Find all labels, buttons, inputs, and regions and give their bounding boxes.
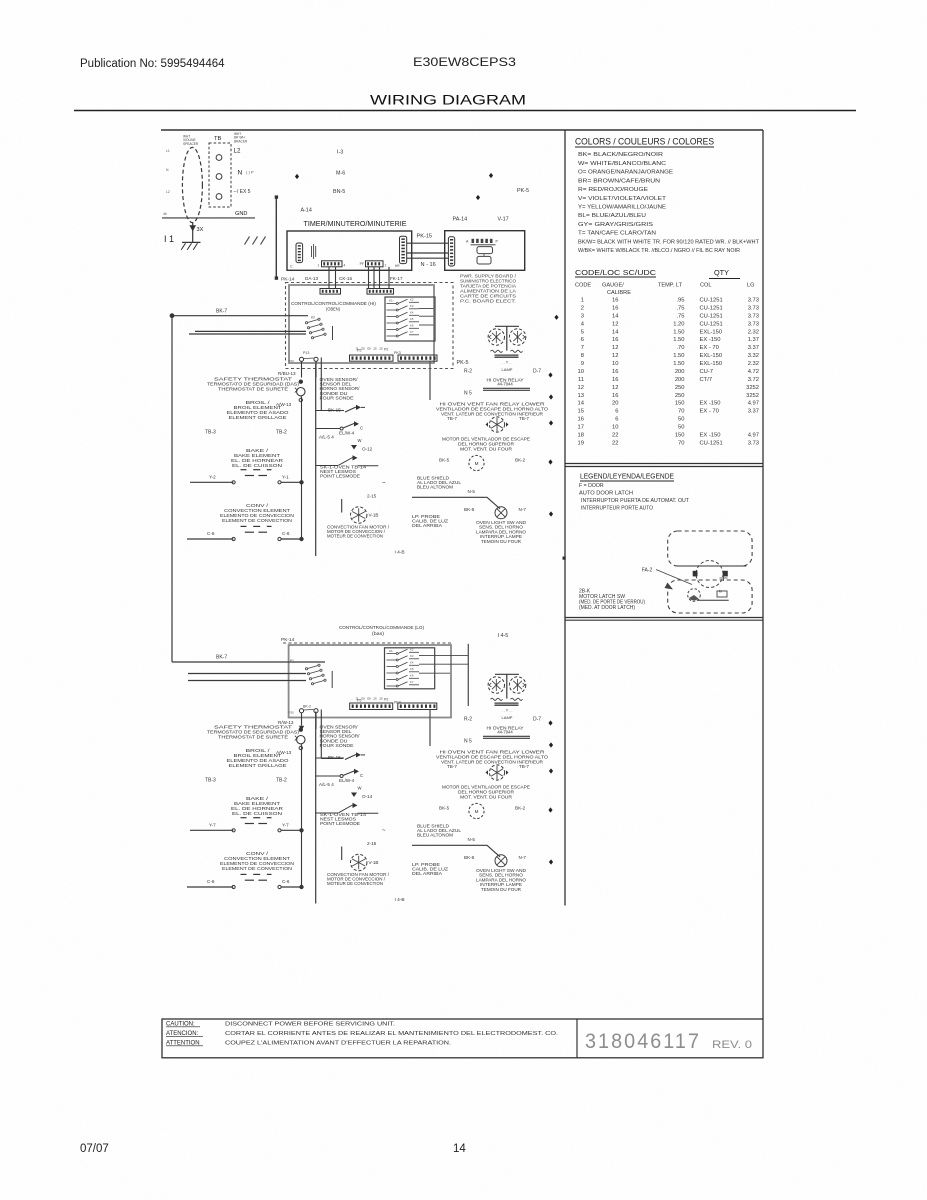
right panel right border [762, 130, 764, 1019]
svg-text:16: 16 [612, 393, 618, 399]
sensor switch 2 [316, 775, 340, 777]
svg-text:11: 11 [578, 377, 584, 383]
svg-text:I 4-5: I 4-5 [498, 633, 509, 639]
svg-text:1: 1 [318, 263, 320, 267]
svg-text:CU-1251: CU-1251 [700, 305, 723, 311]
legend cam follower blocks [693, 571, 698, 577]
svg-text:P20: P20 [289, 711, 295, 715]
thermostat symbol [299, 380, 302, 383]
svg-text:12: 12 [612, 321, 618, 327]
svg-text:V-17: V-17 [498, 217, 509, 223]
timer crystal marks [311, 246, 313, 257]
legend bottom double rule [565, 617, 763, 619]
timer left connector [296, 243, 303, 263]
diagram frame top border [161, 129, 763, 131]
oven lamp left [488, 329, 504, 345]
svg-text:16: 16 [578, 417, 584, 423]
svg-text:2-15: 2-15 [367, 494, 377, 499]
svg-text:K2: K2 [410, 648, 414, 652]
svg-text:INTERRUPTEUR PORTE AUTO: INTERRUPTEUR PORTE AUTO [581, 506, 653, 512]
svg-text:N-5: N-5 [468, 837, 476, 842]
svg-text:M: M [719, 590, 722, 594]
svg-text:CU-7: CU-7 [700, 369, 714, 375]
svg-text:.70: .70 [676, 345, 684, 351]
svg-text:BK-8: BK-8 [464, 855, 475, 860]
svg-text:PK-5: PK-5 [517, 188, 529, 194]
lower control bottom strip C [350, 703, 393, 710]
svg-text:50: 50 [678, 417, 684, 423]
svg-text:K6: K6 [410, 674, 414, 678]
svg-text:GAUGE/: GAUGE/ [602, 283, 624, 289]
upper relay box exit wires [419, 308, 434, 310]
upper control connector strip A [320, 289, 341, 295]
terminal block dashed box [209, 143, 231, 207]
svg-text:V-1B: V-1B [369, 513, 379, 518]
svg-text:O= ORANGE/NARANJA/ORANGE: O= ORANGE/NARANJA/ORANGE [578, 170, 673, 176]
svg-text:BK= BLACK/NEGRO/NOIR: BK= BLACK/NEGRO/NOIR [578, 152, 663, 158]
terminal block screws [216, 155, 222, 161]
svg-text:~: ~ [382, 828, 386, 834]
svg-text:12: 12 [612, 385, 618, 391]
wire P13 right drop [315, 361, 317, 377]
svg-text:TEMP. LT: TEMP. LT [658, 283, 683, 289]
svg-text:TIMER/MINUTERO/MINUTERIE: TIMER/MINUTERO/MINUTERIE [304, 221, 407, 228]
svg-text:K7: K7 [410, 330, 414, 334]
svg-text:13: 13 [578, 393, 584, 399]
svg-text:6: 6 [615, 417, 618, 423]
svg-text:EX -150: EX -150 [700, 337, 721, 343]
lamp filaments [491, 350, 503, 352]
svg-text:20: 20 [612, 401, 618, 407]
svg-text:318046117: 318046117 [585, 1030, 701, 1053]
wire lower strip D drop [429, 710, 431, 747]
svg-text:4: 4 [344, 263, 346, 267]
svg-text:44-7044: 44-7044 [497, 382, 513, 387]
wire into lower control 2 double [188, 673, 306, 675]
svg-text:N 5: N 5 [464, 391, 472, 397]
svg-text:3.37: 3.37 [748, 409, 759, 415]
svg-text:( ) P: ( ) P [246, 170, 254, 175]
caution box divider [576, 1019, 578, 1058]
wires timer to control strip B [368, 267, 370, 289]
svg-text:LG: LG [747, 283, 754, 289]
sensor feed bus [315, 364, 317, 556]
svg-text:18: 18 [578, 432, 584, 438]
cooling motor symbol [469, 455, 484, 470]
svg-text:R-2: R-2 [464, 368, 472, 374]
svg-text:.75: .75 [676, 313, 684, 319]
svg-text:M: M [475, 461, 479, 466]
svg-text:EL/W-4: EL/W-4 [339, 431, 355, 436]
svg-text:14: 14 [612, 313, 619, 319]
svg-text:PF: PF [360, 262, 364, 266]
svg-text:MOT. VENT. DU FOUR: MOT. VENT. DU FOUR [460, 794, 512, 799]
lower relay box K-bank [385, 648, 435, 689]
legend contact bar [698, 599, 729, 601]
legend motor start switch circle [688, 589, 701, 602]
svg-text:(OBEN): (OBEN) [326, 307, 340, 312]
svg-text:ELEMENT DE CONVECTION: ELEMENT DE CONVECTION [222, 866, 292, 871]
svg-text:E30EW8CEPS3: E30EW8CEPS3 [413, 57, 516, 69]
svg-text:FA-2: FA-2 [642, 568, 653, 574]
svg-text:CALIBRE: CALIBRE [607, 290, 631, 296]
wire lower P13 right drop [315, 713, 317, 729]
lamp base double line [495, 354, 519, 356]
svg-text:POINT LESMODE: POINT LESMODE [320, 821, 360, 826]
svg-text:BK-5: BK-5 [439, 805, 450, 810]
svg-text:12: 12 [612, 345, 618, 351]
svg-text:C-6: C-6 [282, 879, 290, 884]
svg-text:Y-7: Y-7 [209, 823, 216, 828]
svg-text:PA-14: PA-14 [453, 217, 468, 223]
svg-text:O-12: O-12 [362, 447, 373, 452]
svg-text:FOUR SONDE: FOUR SONDE [320, 395, 354, 400]
svg-text:N 5: N 5 [464, 739, 472, 745]
svg-text:COL: COL [700, 283, 712, 289]
svg-text:CONTROL/CONTROL/COMMANDE (LO): CONTROL/CONTROL/COMMANDE (LO) [339, 625, 424, 630]
svg-text:R= RED/ROJO/ROUGE: R= RED/ROJO/ROUGE [578, 187, 648, 193]
svg-text:MOTEUR DE CONVECTION: MOTEUR DE CONVECTION [327, 534, 383, 539]
svg-text:BK-2: BK-2 [515, 805, 526, 810]
svg-text:D-7: D-7 [533, 716, 541, 722]
lower control dashed top [283, 642, 453, 644]
svg-text:10: 10 [578, 369, 584, 375]
svg-text:BK-7: BK-7 [216, 655, 227, 661]
svg-text:W: W [358, 438, 362, 443]
svg-text:WIRING DIAGRAM: WIRING DIAGRAM [370, 93, 526, 108]
lamp base double line [495, 702, 519, 704]
svg-text:150: 150 [675, 401, 685, 407]
svg-text:8: 8 [581, 353, 584, 359]
svg-text:Y-1: Y-1 [282, 475, 289, 480]
svg-text:CK-15: CK-15 [339, 276, 352, 281]
lower control bottom strip D [398, 703, 437, 710]
power cord oval [182, 147, 202, 222]
svg-text:D-7: D-7 [533, 368, 541, 374]
junction diamonds column [548, 720, 552, 725]
svg-text:BK-5: BK-5 [439, 457, 450, 462]
svg-text:BLEU ALTONOM: BLEU ALTONOM [417, 484, 454, 489]
svg-text:3252: 3252 [746, 385, 759, 391]
svg-text:K7: K7 [410, 680, 414, 684]
svg-text:. 1 5 5 2 2 .: . 1 5 5 2 2 . [351, 347, 387, 351]
svg-text:Y-7: Y-7 [282, 823, 289, 828]
svg-text:9: 9 [581, 361, 584, 367]
svg-text:W: W [358, 786, 362, 791]
svg-text:I-3: I-3 [337, 150, 343, 156]
svg-text:N-5: N-5 [468, 489, 476, 494]
svg-text:4b: 4b [163, 212, 167, 216]
svg-text:16: 16 [612, 305, 618, 311]
lamp caption underline [483, 735, 530, 737]
upper relay box K-bank [385, 297, 435, 341]
svg-text:4.97: 4.97 [748, 432, 759, 438]
svg-text:BK/W= BLACK WITH WHITE TR. FOR: BK/W= BLACK WITH WHITE TR. FOR 90/120 RA… [578, 239, 760, 245]
oven lamp pair T feed [495, 673, 519, 675]
svg-text:EX -150: EX -150 [700, 432, 721, 438]
svg-text:EL. DE CUISSON: EL. DE CUISSON [232, 463, 282, 468]
svg-text:4.72: 4.72 [748, 369, 759, 375]
wire strip D drop [429, 361, 431, 400]
svg-text:K1-: K1- [389, 649, 394, 653]
upper control bottom strip D [398, 355, 437, 361]
oven light lamp [495, 507, 507, 519]
sensor switch 2 [316, 428, 340, 430]
svg-text:N-7: N-7 [519, 507, 527, 512]
svg-text:TEMOIN DU FOUR: TEMOIN DU FOUR [481, 539, 521, 544]
timer right connector [400, 236, 407, 263]
svg-text:14: 14 [578, 401, 585, 407]
svg-text:16: 16 [612, 337, 618, 343]
power board relay K2 [477, 256, 491, 264]
junction diamonds column [554, 315, 558, 320]
svg-text:BLEU ALTONOM: BLEU ALTONOM [417, 832, 454, 837]
svg-text:BK-2: BK-2 [515, 457, 526, 462]
svg-text:PK-15: PK-15 [417, 234, 433, 240]
svg-text:3: 3 [581, 313, 584, 319]
svg-text:COLORS / COULEURS / COLORES: COLORS / COULEURS / COLORES [575, 137, 714, 147]
svg-text:12: 12 [612, 353, 618, 359]
svg-text:250: 250 [675, 385, 685, 391]
svg-text:BK-7: BK-7 [216, 309, 227, 315]
oven lamp right [509, 329, 525, 345]
convection fan feed stub [341, 847, 343, 861]
svg-text:3X: 3X [197, 227, 204, 233]
svg-text:2.32: 2.32 [748, 329, 759, 335]
svg-text:REV. 0: REV. 0 [712, 1039, 752, 1051]
wire into upper control 2 double [195, 330, 306, 332]
svg-text:QTY: QTY [714, 270, 729, 277]
svg-text:R-2: R-2 [464, 716, 472, 722]
svg-text:K5: K5 [410, 317, 414, 321]
element feed line [301, 396, 303, 539]
svg-text:3.73: 3.73 [748, 298, 759, 304]
light switch wire [412, 845, 500, 857]
svg-text:TB-7: TB-7 [519, 764, 529, 769]
svg-text:THERMOSTAT DE SURETE: THERMOSTAT DE SURETE [218, 735, 288, 740]
element symbol dashes 1 [241, 469, 247, 471]
svg-text:LEGEND/LEYENDA/LEGENDE: LEGEND/LEYENDA/LEGENDE [580, 472, 674, 481]
svg-text:3252: 3252 [746, 393, 759, 399]
svg-text:70: 70 [678, 409, 684, 415]
svg-text:K4: K4 [410, 311, 414, 315]
svg-text:EX - 70: EX - 70 [700, 345, 719, 351]
wire bundle timer to power board [407, 242, 449, 244]
element feed line [301, 744, 303, 887]
timer box U1 [287, 231, 412, 270]
upper control board U3 [289, 285, 434, 363]
svg-text:6: 6 [615, 409, 618, 415]
svg-text:(bas): (bas) [372, 631, 385, 636]
element symbol dashes 2 [241, 873, 247, 875]
svg-text:O-14: O-14 [362, 794, 373, 799]
oven light lamp [495, 855, 507, 867]
svg-text:PK-5: PK-5 [457, 360, 469, 366]
svg-text:CU-1251: CU-1251 [700, 440, 723, 446]
svg-text:L1: L1 [166, 149, 170, 153]
svg-text:W= WHITE/BLANCO/BLANC: W= WHITE/BLANCO/BLANC [578, 161, 666, 167]
svg-text:V-1B: V-1B [369, 860, 379, 865]
svg-text:2.32: 2.32 [748, 361, 759, 367]
sensor switch 3 [316, 812, 338, 814]
timer connector P1 strip [322, 261, 343, 267]
svg-text:PK-14: PK-14 [281, 637, 295, 643]
svg-text:DA-13: DA-13 [305, 276, 318, 281]
svg-text:TB: TB [214, 136, 222, 142]
lamp filaments [491, 698, 503, 700]
svg-text:I 4-B: I 4-B [395, 550, 405, 556]
svg-text:1.37: 1.37 [748, 337, 759, 343]
svg-text:EXL-150: EXL-150 [700, 361, 723, 367]
thermostat arrow lower [299, 726, 304, 731]
svg-text:~: ~ [382, 481, 386, 487]
svg-text:A-14: A-14 [301, 208, 312, 214]
svg-text:22: 22 [612, 440, 618, 446]
svg-text:K3: K3 [410, 654, 414, 658]
svg-text:CONTROL/CONTROL/COMMANDE (HI): CONTROL/CONTROL/COMMANDE (HI) [291, 301, 376, 306]
svg-text:1.50: 1.50 [673, 353, 684, 359]
lower relay box exit wires [419, 654, 468, 656]
legend latch drawing upper dashed housing [668, 531, 752, 566]
svg-text:N - 16: N - 16 [421, 262, 436, 268]
svg-text:Y= YELLOW/AMARILLO/JAUNE: Y= YELLOW/AMARILLO/JAUNE [578, 205, 666, 211]
svg-text:MOT. VENT. DU FOUR: MOT. VENT. DU FOUR [460, 446, 512, 451]
svg-text:12: 12 [578, 385, 584, 391]
svg-text:3.37: 3.37 [748, 345, 759, 351]
svg-text:A/L-5 4: A/L-5 4 [319, 782, 334, 787]
svg-text:R/BU-13: R/BU-13 [278, 371, 296, 376]
svg-text:BK-8: BK-8 [464, 507, 475, 512]
svg-text:W/BK= WHITE W/BLACK TR. //BLCO: W/BK= WHITE W/BLACK TR. //BLCO./ NGRO //… [578, 248, 740, 254]
svg-text:1: 1 [385, 263, 387, 267]
svg-text:T= TAN/CAFE CLARO/TAN: T= TAN/CAFE CLARO/TAN [578, 231, 656, 237]
svg-text:I 4-B: I 4-B [395, 897, 405, 903]
svg-text:3.73: 3.73 [748, 440, 759, 446]
svg-text:CU-1251: CU-1251 [700, 313, 723, 319]
svg-text:C: C [360, 773, 363, 778]
wire lower P13 left drop [301, 713, 303, 726]
wire P13 left drop [301, 361, 303, 377]
svg-text:TB-2: TB-2 [276, 778, 287, 784]
svg-text:200: 200 [675, 369, 685, 375]
svg-text:EL/W-4: EL/W-4 [339, 778, 355, 783]
svg-text:4.97: 4.97 [748, 401, 759, 407]
svg-text:14: 14 [453, 1143, 466, 1155]
element symbol dashes 2 [241, 525, 247, 527]
svg-text:3.72: 3.72 [748, 377, 759, 383]
svg-text:LAMP: LAMP [502, 715, 513, 720]
svg-text:C-6: C-6 [207, 531, 215, 536]
element symbol dashes 1 [241, 817, 247, 819]
legend micro switch block [717, 591, 727, 597]
svg-text:EX - 70: EX - 70 [700, 409, 719, 415]
svg-text:Y-2: Y-2 [209, 475, 216, 480]
svg-text:16: 16 [612, 369, 618, 375]
svg-text:Publication No: 5995494464: Publication No: 5995494464 [80, 58, 225, 70]
svg-text:CU-1251: CU-1251 [700, 321, 723, 327]
power board left connector [448, 237, 454, 266]
ground wire [162, 217, 255, 219]
svg-text:F = DOOR: F = DOOR [579, 483, 604, 489]
upper control bottom strip C [350, 355, 394, 361]
svg-text:50: 50 [678, 425, 684, 431]
svg-text:. . Y . .: . . Y . . [502, 709, 513, 713]
svg-text:COUPEZ L'ALIMENTATION AVANT D': COUPEZ L'ALIMENTATION AVANT D'EFFECTUER … [225, 1041, 451, 1047]
svg-text:GND: GND [235, 211, 247, 217]
svg-text:3.73: 3.73 [748, 321, 759, 327]
svg-text:.75: .75 [676, 305, 684, 311]
convection fan motor [351, 507, 367, 523]
svg-text:15: 15 [578, 409, 584, 415]
svg-text:2-15: 2-15 [367, 841, 377, 846]
svg-text:7: 7 [581, 345, 584, 351]
svg-text:ELEMENT GRILLAGE: ELEMENT GRILLAGE [229, 415, 287, 420]
svg-text:PK3: PK3 [394, 351, 401, 355]
svg-text:250: 250 [675, 393, 685, 399]
svg-text:. 1 5 5 2 2 .: . 1 5 5 2 2 . [351, 697, 387, 701]
wire into upper control 1 [170, 314, 174, 318]
cord stem [192, 222, 194, 242]
svg-text:22: 22 [612, 432, 618, 438]
svg-text:K6: K6 [410, 324, 414, 328]
svg-text:3.73: 3.73 [748, 313, 759, 319]
svg-text:5: 5 [581, 329, 584, 335]
svg-text:LAMP: LAMP [502, 367, 513, 372]
svg-text:K2: K2 [311, 316, 315, 320]
svg-text:200: 200 [675, 377, 685, 383]
lower control board U4 [289, 645, 451, 718]
svg-text:C-6: C-6 [282, 531, 290, 536]
color panel bottom double rule [565, 463, 763, 465]
svg-text:I 1: I 1 [164, 234, 174, 244]
svg-text:TEMOIN DU FOUR: TEMOIN DU FOUR [481, 887, 521, 892]
svg-text:TB-7: TB-7 [447, 416, 457, 421]
svg-text:PK-14: PK-14 [281, 277, 295, 283]
svg-text:16: 16 [612, 298, 618, 304]
svg-text:CODE: CODE [575, 283, 591, 289]
svg-text:CORTAR EL CORRIENTE ANTES DE R: CORTAR EL CORRIENTE ANTES DE REALIZAR EL… [225, 1031, 558, 1037]
svg-text:P20: P20 [289, 359, 295, 363]
lamp caption underline [483, 387, 530, 389]
svg-text:GY= GRAY/GRIS/GRIS: GY= GRAY/GRIS/GRIS [578, 222, 653, 228]
right panel left border [564, 130, 566, 906]
svg-text:150: 150 [675, 432, 685, 438]
svg-text:10: 10 [612, 425, 618, 431]
svg-text:16: 16 [612, 377, 618, 383]
cooling motor symbol [469, 803, 484, 818]
legend latch drawing lower dashed housing [668, 580, 752, 613]
svg-text:BL= BLUE/AZUL/BLEU: BL= BLUE/AZUL/BLEU [578, 213, 646, 219]
oven lamp right [509, 677, 525, 693]
svg-text:3.32: 3.32 [748, 353, 759, 359]
svg-text:1: 1 [581, 298, 584, 304]
svg-text:V= VIOLET/VIOLETA/VIOLET: V= VIOLET/VIOLETA/VIOLET [578, 196, 667, 202]
svg-text:FK-17: FK-17 [390, 276, 403, 281]
svg-text:BK-2: BK-2 [303, 705, 311, 709]
svg-text:EX -150: EX -150 [700, 401, 721, 407]
svg-text:10: 10 [612, 361, 618, 367]
vent fan symbol [489, 417, 504, 432]
svg-text:A/L-5 4: A/L-5 4 [319, 435, 334, 440]
oven lamp left [488, 677, 504, 693]
svg-text:AUTO DOOR LATCH: AUTO DOOR LATCH [579, 491, 633, 497]
legend latch upper housing base line [677, 565, 746, 567]
svg-text:14: 14 [612, 329, 619, 335]
caution box frame [162, 1019, 763, 1058]
svg-text:THERMOSTAT DE SURETE: THERMOSTAT DE SURETE [218, 387, 288, 392]
timer connector P2 strip [366, 261, 384, 267]
sensor switch 3 [316, 465, 338, 467]
